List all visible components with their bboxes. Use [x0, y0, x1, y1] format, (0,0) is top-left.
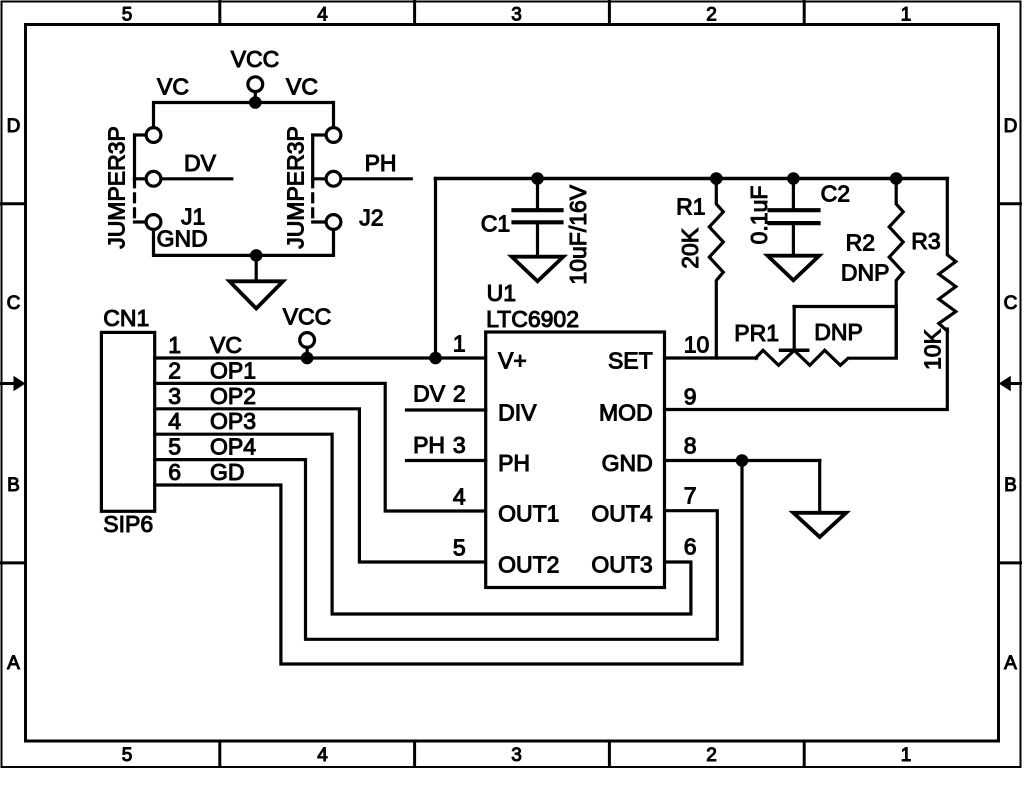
resistor R3 10K [939, 179, 956, 332]
wire GND net (jumper bottoms) [154, 230, 334, 256]
junction (R2 top) [890, 172, 903, 185]
svg-text:C: C [7, 293, 21, 314]
svg-text:B: B [7, 475, 20, 496]
svg-text:PH: PH [365, 150, 397, 176]
svg-text:J2: J2 [359, 204, 383, 230]
junction (R1 top) [710, 172, 723, 185]
ground symbol (C2) [768, 256, 820, 281]
svg-text:C2: C2 [821, 181, 850, 207]
svg-text:VC: VC [157, 74, 189, 100]
wire VCC rail vertical [434, 179, 437, 359]
wire ground stub [255, 255, 258, 281]
junction (C1 top) [531, 172, 544, 185]
svg-text:4: 4 [168, 408, 181, 434]
svg-text:7: 7 [684, 483, 697, 509]
svg-text:VC: VC [210, 332, 242, 358]
wire OP1: CN1 pin2 to U1 OUT1 [155, 383, 486, 511]
svg-text:3: 3 [511, 745, 522, 766]
svg-text:DV: DV [184, 150, 217, 176]
capacitor C2 [770, 179, 819, 256]
svg-text:9: 9 [684, 384, 697, 410]
junction (C2 top) [787, 172, 800, 185]
wire SET net: U1 pin10 to PR1 [665, 356, 757, 359]
svg-text:LTC6902: LTC6902 [486, 306, 579, 332]
svg-text:C: C [1004, 293, 1018, 314]
right frame arrow [999, 376, 1011, 391]
svg-text:5: 5 [122, 4, 133, 25]
svg-text:10: 10 [684, 332, 710, 358]
left frame arrow [14, 376, 26, 391]
svg-text:4: 4 [317, 745, 328, 766]
svg-text:DIV: DIV [498, 400, 537, 426]
svg-text:0.1uF: 0.1uF [746, 186, 772, 245]
junction (GND pin8) [736, 454, 749, 467]
svg-text:2: 2 [706, 745, 717, 766]
svg-text:D: D [7, 116, 21, 137]
svg-text:CN1: CN1 [103, 305, 149, 331]
svg-text:OP2: OP2 [210, 383, 256, 409]
svg-text:PH: PH [498, 450, 530, 476]
wire PH net: U1 pin3 [407, 459, 486, 462]
svg-text:OP1: OP1 [210, 357, 256, 383]
svg-text:VCC: VCC [231, 46, 280, 72]
svg-text:3: 3 [168, 383, 181, 409]
svg-text:B: B [1004, 475, 1017, 496]
svg-text:GND: GND [157, 226, 208, 252]
svg-text:5: 5 [453, 535, 466, 561]
svg-text:D: D [1004, 116, 1018, 137]
svg-text:2: 2 [453, 381, 466, 407]
wire OP2: CN1 pin3 to U1 OUT2 [155, 409, 486, 562]
svg-text:1: 1 [901, 4, 912, 25]
wire VC rail [154, 103, 334, 129]
svg-text:SIP6: SIP6 [103, 511, 153, 537]
wire MOD net: U1 pin9 to R3 [665, 329, 948, 410]
svg-text:MOD: MOD [599, 400, 653, 426]
svg-text:PR1: PR1 [734, 320, 779, 346]
svg-text:20K: 20K [677, 227, 703, 269]
svg-text:1: 1 [453, 331, 466, 357]
svg-text:10K: 10K [919, 328, 945, 370]
wire wiper to R2 [794, 307, 896, 358]
svg-text:5: 5 [122, 745, 133, 766]
ground symbol (U1 pin8) [793, 513, 846, 537]
potentiometer PR1 body [756, 350, 897, 365]
svg-text:OUT3: OUT3 [591, 552, 652, 578]
wire DV net: U1 pin2 [407, 408, 486, 411]
svg-text:R3: R3 [911, 228, 940, 254]
svg-text:1: 1 [901, 745, 912, 766]
op-amp U1 LTC6902 body [486, 332, 665, 588]
capacitor C1 [514, 179, 562, 257]
svg-text:VC: VC [286, 74, 318, 100]
svg-text:U1: U1 [487, 280, 516, 306]
svg-text:JUMPER3P: JUMPER3P [104, 126, 130, 249]
svg-text:R2: R2 [846, 230, 875, 256]
svg-text:OUT1: OUT1 [498, 501, 559, 527]
ground symbol (jumpers) [230, 281, 284, 308]
svg-text:VCC: VCC [283, 304, 332, 330]
svg-text:SET: SET [608, 348, 653, 374]
svg-text:A: A [7, 653, 20, 674]
power symbol VCC (top) [248, 77, 263, 103]
svg-text:GD: GD [210, 459, 245, 485]
resistor R1 20K [709, 179, 723, 359]
svg-text:C1: C1 [481, 211, 510, 237]
svg-text:A: A [1004, 653, 1017, 674]
svg-text:3: 3 [453, 432, 466, 458]
jumper J1 body [135, 128, 161, 230]
svg-text:6: 6 [684, 534, 697, 560]
svg-text:JUMPER3P: JUMPER3P [283, 126, 309, 249]
svg-text:V+: V+ [498, 348, 527, 374]
svg-text:DNP: DNP [814, 319, 863, 345]
junction (VCC CN1) [301, 352, 314, 365]
svg-text:DV: DV [413, 381, 446, 407]
svg-text:2: 2 [168, 357, 181, 383]
svg-text:2: 2 [706, 4, 717, 25]
junction (V+ rail) [429, 352, 442, 365]
wire DV stub (jumper J1 pin 2) [161, 177, 232, 180]
power symbol VCC (CN1 area) [300, 333, 315, 358]
potentiometer PR1 wiper [781, 307, 808, 351]
svg-text:DNP: DNP [841, 260, 890, 286]
svg-text:6: 6 [168, 459, 181, 485]
junction (GND jumpers) [250, 249, 263, 262]
wire OP3: CN1 pin4 to U1 OUT3 [155, 434, 691, 614]
svg-text:GND: GND [602, 450, 653, 476]
wire GND net: U1 pin8 [665, 459, 820, 462]
resistor R2 DNP [889, 179, 903, 358]
jumper J2 body [313, 128, 341, 230]
svg-text:OUT2: OUT2 [498, 552, 559, 578]
svg-text:OP4: OP4 [210, 434, 256, 460]
junction (VCC top) [249, 96, 262, 109]
wire OP4: CN1 pin5 to U1 OUT4 [155, 460, 718, 640]
wire PH stub (jumper J2 pin 2) [341, 177, 411, 180]
svg-text:1: 1 [168, 332, 181, 358]
svg-text:4: 4 [453, 484, 466, 510]
svg-text:5: 5 [168, 434, 181, 460]
wire VC net: CN1 pin1 to U1 V+ [155, 356, 486, 359]
ground symbol (C1) [512, 257, 564, 282]
svg-text:8: 8 [684, 433, 697, 459]
svg-text:3: 3 [511, 4, 522, 25]
connector CN1 body [101, 332, 154, 511]
svg-text:R1: R1 [676, 194, 705, 220]
svg-text:10uF/16V: 10uF/16V [565, 184, 591, 284]
wire ground stub (pin8) [818, 461, 821, 513]
svg-text:OP3: OP3 [210, 408, 256, 434]
wire VCC top rail [436, 177, 948, 181]
wire GD: CN1 pin6 to GND junction [155, 461, 742, 665]
svg-text:4: 4 [317, 4, 328, 25]
svg-text:OUT4: OUT4 [591, 501, 653, 527]
svg-text:PH: PH [413, 432, 445, 458]
